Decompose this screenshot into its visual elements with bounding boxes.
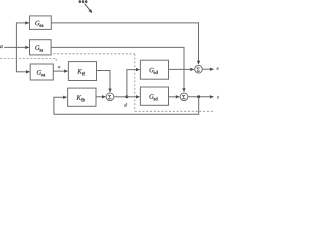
wire: branch to G_oa xyxy=(16,71,30,73)
block G_sd xyxy=(140,87,168,105)
wire: G_sa output across then down into S3 xyxy=(51,47,184,91)
summing junction S2 xyxy=(195,65,203,73)
node s junction dot xyxy=(197,95,200,98)
block K_ff xyxy=(68,62,96,81)
block G_ed xyxy=(140,60,168,79)
wire: dashed boundary bottom horizontal xyxy=(135,110,214,112)
wire: dashed boundary vertical xyxy=(134,54,136,112)
wire: G_sd output into S3 xyxy=(169,96,180,98)
wire: K_fb output into S1 xyxy=(96,96,106,98)
node d junction dot xyxy=(125,95,128,98)
node o label xyxy=(58,66,60,68)
wire: S3 output to s xyxy=(188,96,214,98)
wire: dashed boundary mid horizontal xyxy=(54,53,135,55)
node s output label xyxy=(217,96,219,98)
wire: G_ea output across top then down into S2 xyxy=(51,23,198,64)
wire: feedback from s down left and up into K_fb xyxy=(54,97,199,115)
wire: annotation arrow xyxy=(85,4,92,13)
wire: S1 output to node d xyxy=(114,96,127,98)
wire: S2 output to e xyxy=(202,68,213,70)
wire: dashed boundary upper-left horizontal xyxy=(0,58,56,60)
wire: G_oa output signal o to K_ff xyxy=(53,70,67,72)
wire: branch vertical xyxy=(15,23,17,73)
wire: node d up into G_ed xyxy=(127,70,140,97)
block G_sa xyxy=(30,40,52,55)
block K_fb xyxy=(68,88,96,106)
block G_oa xyxy=(30,64,53,80)
wire: branch to G_ea xyxy=(16,22,29,24)
block G_ea xyxy=(30,16,52,30)
node d label xyxy=(124,103,126,107)
wire: G_ed output into S2 xyxy=(169,68,194,70)
wire: dashed boundary tick down xyxy=(55,59,57,63)
node e output label xyxy=(217,67,219,69)
summing junction S3 xyxy=(180,93,188,101)
wire: input a to G_sa xyxy=(4,46,29,48)
wire: node d to G_sd xyxy=(127,96,140,98)
node a input label xyxy=(0,45,2,48)
node annotation text fragment cut at top edge xyxy=(79,0,88,3)
summing junction S1 xyxy=(106,93,114,101)
wire: K_ff output right then down into S1 xyxy=(97,71,111,93)
